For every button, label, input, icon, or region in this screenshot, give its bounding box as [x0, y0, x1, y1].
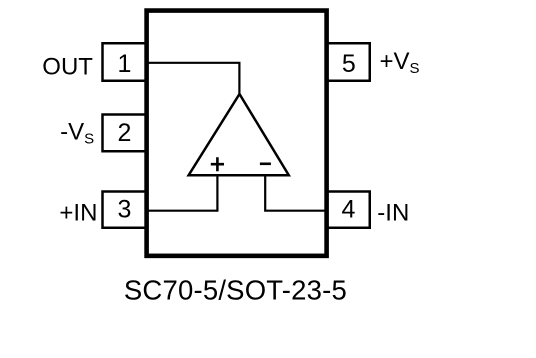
- pin 4 box: [326, 192, 370, 228]
- wire pin4 to op-amp inverting input: [265, 176, 327, 211]
- svg-text:OUT: OUT: [42, 53, 93, 80]
- op-amp minus (inverting) marker: [260, 163, 271, 166]
- op-amp plus (non-inverting) marker: [211, 157, 224, 171]
- svg-text:SC70-5/SOT-23-5: SC70-5/SOT-23-5: [124, 275, 347, 306]
- svg-text:4: 4: [342, 196, 356, 224]
- svg-text:1: 1: [118, 50, 132, 78]
- svg-text:2: 2: [118, 119, 132, 147]
- pin 5 box: [326, 43, 370, 81]
- svg-text:5: 5: [342, 50, 356, 78]
- pin 1 box: [103, 43, 147, 81]
- IC body SC70-5/SOT-23-5 outline: [147, 11, 327, 256]
- svg-text:-VS: -VS: [60, 119, 94, 148]
- op-amp U1 triangle: [189, 94, 289, 175]
- wire pin3 to op-amp non-inverting input: [146, 176, 217, 211]
- pin 2 box: [103, 115, 147, 152]
- svg-text:+VS: +VS: [380, 48, 420, 77]
- svg-text:3: 3: [118, 195, 132, 223]
- wire pin1 to op-amp output: [146, 63, 239, 95]
- svg-text:+IN: +IN: [59, 199, 97, 226]
- svg-text:-IN: -IN: [377, 199, 409, 226]
- pin 3 box: [103, 192, 147, 228]
